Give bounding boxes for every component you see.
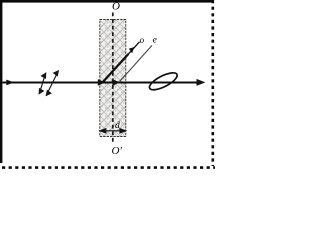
frame left border (solid) bbox=[0, 0, 2, 163]
e-ray (thin diagonal) bbox=[119, 45, 152, 82]
frame bottom border (dashed) bbox=[2, 166, 215, 169]
svg-text:e: e bbox=[153, 35, 157, 45]
beam arrowhead at crystal entry bbox=[98, 79, 105, 86]
svg-text:O: O bbox=[112, 0, 120, 12]
svg-text:O′: O′ bbox=[112, 145, 123, 157]
crystal plate (stippled rectangle) bbox=[100, 20, 126, 137]
frame right border (dashed) bbox=[212, 0, 215, 166]
svg-text:d: d bbox=[115, 121, 120, 131]
o-ray (thick diagonal with arrowhead) bbox=[103, 54, 129, 83]
svg-text:o: o bbox=[140, 35, 145, 45]
frame top border (solid) bbox=[0, 0, 212, 3]
beam arrowhead at optic axis bbox=[112, 79, 119, 86]
polarization double arrow B bbox=[46, 71, 58, 95]
beam line (horizontal ray) bbox=[3, 82, 201, 84]
thickness arrow d (double headed) bbox=[100, 129, 125, 133]
polarization ellipse bbox=[147, 70, 179, 94]
optic axis OO' (vertical dashed line) bbox=[112, 13, 114, 144]
beam arrowhead left bbox=[6, 80, 14, 86]
beam arrowhead right end bbox=[197, 79, 206, 86]
polarization double arrow A bbox=[39, 73, 46, 93]
